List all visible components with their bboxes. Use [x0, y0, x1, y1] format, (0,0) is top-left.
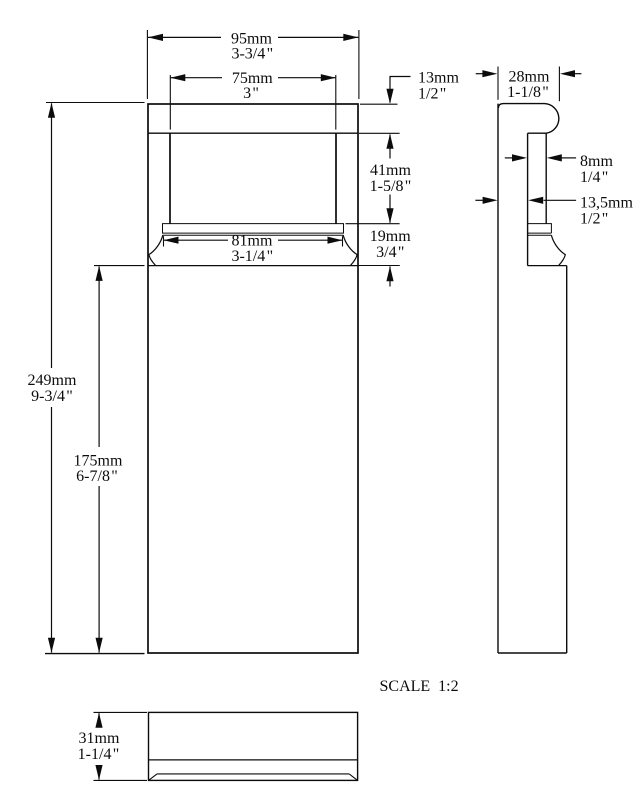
dim 249mm extension line top: [46, 102, 145, 104]
dim 31mm extension lines: [94, 711, 148, 713]
svg-text:3 ": 3 ": [243, 85, 259, 102]
svg-text:1-1/8 ": 1-1/8 ": [507, 84, 549, 101]
svg-text:28mm: 28mm: [509, 68, 550, 85]
arrowheads 31mm: [95, 713, 102, 728]
dim 31mm dimension line: [98, 713, 100, 727]
svg-text:9-3/4 ": 9-3/4 ": [31, 388, 73, 405]
side view column front face: [545, 133, 547, 223]
arrowhead 19mm up outside: [386, 266, 393, 281]
dim 41mm lower arrow tail: [389, 195, 391, 223]
front view outer outline: [148, 104, 358, 653]
bottom view right corner chamfer: [349, 774, 357, 781]
svg-text:6-7/8 ": 6-7/8 ": [76, 468, 118, 485]
svg-text:13mm: 13mm: [418, 70, 459, 87]
dim 41mm upper arrow tail: [389, 135, 391, 159]
arrowheads 13,5mm: [483, 197, 498, 204]
shared bottom extension line: [45, 653, 145, 655]
side view bottom edge: [498, 652, 567, 654]
dim 175mm extension line top: [94, 265, 145, 267]
dim 13,5mm right arrow tail: [544, 199, 577, 201]
arrowheads 28mm outside: [482, 70, 497, 77]
dim 81mm dimension line: [164, 239, 229, 241]
dim 8mm left arrow tail: [505, 157, 512, 159]
dim 13mm top extension line: [360, 103, 398, 105]
svg-text:8mm: 8mm: [580, 153, 613, 170]
side view base plate band: [528, 224, 552, 234]
dim 41mm extension line: [346, 223, 400, 225]
side view base plate lower fillet line: [528, 234, 552, 236]
svg-text:1/4 ": 1/4 ": [580, 169, 608, 186]
arrowhead 41mm down: [386, 208, 393, 223]
arrowheads 249mm: [48, 103, 55, 118]
dim 95mm dimension line: [148, 36, 221, 38]
front view column left edge: [169, 133, 171, 223]
dim 28mm extension lines: [497, 67, 499, 100]
svg-text:1/2 ": 1/2 ": [580, 210, 608, 227]
dim 13mm bottom extension line: [359, 132, 400, 134]
svg-text:1-5/8 ": 1-5/8 ": [370, 178, 412, 195]
dim 28mm right arrow tail: [575, 73, 582, 75]
dim 8mm right arrow tail: [561, 157, 576, 159]
svg-text:249mm: 249mm: [28, 372, 77, 389]
front view right base ogee curve: [343, 235, 357, 265]
svg-text:175mm: 175mm: [74, 452, 123, 469]
svg-text:1/2 ": 1/2 ": [418, 85, 446, 102]
front view base plate band: [163, 224, 344, 234]
dim 19mm lower arrow tail: [389, 266, 391, 286]
svg-text:3-1/4 ": 3-1/4 ": [231, 248, 273, 265]
side view shaft front edge: [566, 266, 568, 653]
arrowhead 41mm up: [386, 134, 393, 149]
svg-text:19mm: 19mm: [370, 228, 411, 245]
front view left base ogee curve: [149, 235, 163, 265]
bottom view inner line: [149, 759, 358, 761]
dim 28mm left arrow tail: [476, 73, 483, 75]
dim 75mm extension lines: [169, 75, 171, 130]
arrowheads 75mm: [170, 74, 185, 81]
svg-text:31mm: 31mm: [79, 730, 120, 747]
side view base ogee curve: [551, 235, 565, 265]
dim 75mm dimension line: [170, 77, 222, 79]
svg-text:41mm: 41mm: [370, 162, 411, 179]
svg-text:1-1/4 ": 1-1/4 ": [78, 746, 120, 763]
dim 13,5mm left arrow tail: [475, 199, 482, 201]
side view cap with bullnose: [498, 104, 558, 134]
svg-text:SCALE 1:2: SCALE 1:2: [380, 678, 459, 695]
side view column back face: [527, 133, 529, 265]
dim 175mm dimension line: [98, 266, 100, 447]
dim 249mm dimension line: [51, 103, 53, 368]
arrowheads 8mm: [512, 154, 527, 161]
side view base seam line: [528, 265, 567, 267]
dim 81mm extension lines: [163, 236, 165, 246]
front view cap bottom edge: [148, 132, 358, 134]
bottom view outline: [149, 712, 358, 780]
svg-text:3-3/4 ": 3-3/4 ": [231, 46, 273, 63]
arrowheads 175mm: [96, 266, 103, 281]
arrowheads 81mm: [164, 237, 179, 244]
front view column right edge: [335, 133, 337, 223]
bottom view lower band line: [157, 773, 349, 775]
svg-text:13,5mm: 13,5mm: [580, 195, 633, 212]
bottom view left corner chamfer: [149, 774, 158, 781]
svg-text:3/4 ": 3/4 ": [376, 244, 404, 261]
front view base plate lower fillet line: [163, 234, 344, 236]
front view base seam line: [148, 265, 357, 267]
arrowhead 13mm leader down: [386, 89, 393, 104]
side view back edge: [497, 104, 499, 653]
dim 19mm extension line: [358, 265, 400, 267]
dim 95mm extension lines: [146, 30, 148, 99]
dim 13mm leader: [390, 77, 411, 103]
arrowheads 95mm: [148, 34, 163, 41]
